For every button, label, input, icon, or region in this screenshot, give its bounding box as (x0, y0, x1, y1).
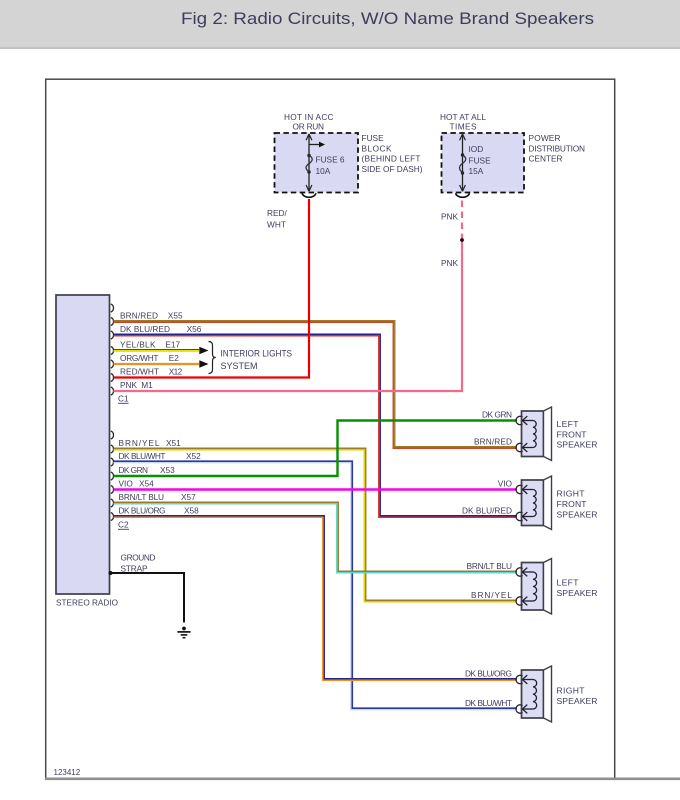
label INTERIOR LIGHTS SYSTEM (221, 349, 293, 371)
label 123412 (54, 768, 81, 777)
wire BRN/RED X55 (radio C1 to left front speaker -) (114, 321, 518, 449)
svg-text:DK BLU/RED: DK BLU/RED (120, 324, 170, 334)
label POWER DISTRIBUTION CENTER (529, 133, 586, 163)
connector arc below fuse block (302, 193, 316, 197)
svg-text:RIGHT: RIGHT (557, 489, 586, 499)
label DK BLU/ORG X58 (119, 506, 200, 516)
svg-text:RED/WHT: RED/WHT (120, 367, 159, 377)
svg-text:YEL/BLK: YEL/BLK (120, 340, 156, 350)
title: Fig 2 Radio Circuits (181, 10, 594, 28)
svg-text:C2: C2 (118, 520, 129, 530)
label FUSE BLOCK (BEHIND LEFT SIDE OF DASH) (362, 133, 423, 174)
wire ground strap (109, 571, 185, 623)
svg-text:BRN/LT BLU: BRN/LT BLU (467, 561, 513, 571)
speaker SP1: LEFT FRONT SPEAKER (516, 407, 552, 461)
svg-text:PNK: PNK (120, 380, 138, 390)
label PNK M1 (120, 380, 153, 390)
svg-text:(BEHIND LEFT: (BEHIND LEFT (362, 154, 421, 164)
label GROUND STRAP (121, 553, 156, 574)
svg-text:X57: X57 (181, 492, 196, 502)
svg-text:DK GRN: DK GRN (119, 465, 149, 475)
svg-text:OR RUN: OR RUN (293, 121, 325, 131)
label FUSE 6 / 10A (316, 155, 345, 176)
label BRN/RED at speaker (474, 437, 512, 447)
label DK GRN at speaker (482, 410, 512, 420)
fuse 6 10A element (306, 134, 312, 191)
svg-text:BRN/RED: BRN/RED (474, 437, 512, 447)
label BRN/RED X55 (120, 311, 183, 321)
wire BRN/LT BLU X57 (radio C2 to left speaker +) (114, 502, 518, 573)
svg-text:SIDE OF DASH): SIDE OF DASH) (362, 164, 423, 174)
radio connector pin arcs C1/C2 (111, 304, 114, 521)
wire PNK dashed segment above splice (461, 200, 463, 240)
label DK BLU/RED at speaker (462, 506, 512, 516)
svg-text:DK BLU/WHT: DK BLU/WHT (465, 698, 512, 708)
label BRN/LT BLU X57 (119, 492, 197, 502)
svg-text:VIO: VIO (119, 479, 134, 489)
svg-text:PNK: PNK (441, 258, 459, 268)
svg-text:INTERIOR LIGHTS: INTERIOR LIGHTS (221, 349, 293, 359)
svg-text:DK BLU/WHT: DK BLU/WHT (119, 451, 166, 461)
wire YEL/BLK E17 (to interior lights system) (114, 347, 209, 355)
svg-text:FUSE: FUSE (362, 133, 385, 143)
label RIGHT SPEAKER (557, 686, 598, 706)
svg-text:C1: C1 (118, 394, 129, 404)
label RED/WHT X12 (120, 367, 183, 377)
svg-text:DK BLU/ORG: DK BLU/ORG (119, 506, 166, 516)
svg-text:TIMES: TIMES (450, 121, 477, 131)
label RIGHT FRONT SPEAKER (557, 489, 598, 520)
svg-text:SPEAKER: SPEAKER (557, 510, 598, 520)
svg-text:BRN/YEL: BRN/YEL (119, 438, 160, 448)
label LEFT SPEAKER (557, 578, 598, 598)
svg-text:BLOCK: BLOCK (362, 144, 392, 154)
label YEL/BLK E17 (120, 340, 181, 350)
speaker SP4: RIGHT SPEAKER (516, 666, 552, 722)
svg-text:DISTRIBUTION: DISTRIBUTION (529, 143, 586, 153)
svg-text:SPEAKER: SPEAKER (557, 588, 598, 598)
branch arrow inside fuse block (309, 142, 325, 148)
svg-text:RIGHT: RIGHT (557, 686, 586, 696)
svg-text:SYSTEM: SYSTEM (221, 361, 258, 371)
IOD fuse 15A element (460, 134, 466, 191)
svg-text:X56: X56 (187, 324, 202, 334)
label DK BLU/WHT X52 (119, 451, 202, 461)
speaker SP2: RIGHT FRONT SPEAKER (516, 476, 552, 530)
label BRN/LT BLU at speaker (467, 561, 513, 571)
svg-text:BRN/RED: BRN/RED (120, 311, 158, 321)
label LEFT FRONT SPEAKER (557, 419, 598, 450)
label RED/WHT wire vertical (267, 208, 288, 230)
label DK GRN X53 (119, 465, 176, 475)
svg-text:HOT AT ALL: HOT AT ALL (440, 112, 486, 122)
svg-text:X55: X55 (168, 311, 183, 321)
svg-text:RED/: RED/ (267, 208, 288, 218)
label PNK lower (441, 258, 459, 268)
svg-text:10A: 10A (316, 166, 331, 176)
wire ORG/WHT E2 (to interior lights system) (114, 360, 209, 368)
svg-text:X54: X54 (139, 479, 154, 489)
svg-text:DK BLU/ORG: DK BLU/ORG (465, 669, 512, 679)
ground symbol G1 (178, 627, 191, 638)
svg-text:CENTER: CENTER (529, 153, 563, 163)
label VIO X54 (119, 479, 155, 489)
wire RED/WHT X12 (radio C1 to fuse 6) (114, 199, 310, 378)
label VIO at speaker (498, 479, 513, 489)
svg-text:FRONT: FRONT (557, 499, 588, 509)
svg-text:X52: X52 (186, 451, 201, 461)
svg-text:X53: X53 (160, 465, 175, 475)
svg-text:HOT IN ACC: HOT IN ACC (284, 112, 334, 122)
label DK BLU/RED X56 (120, 324, 202, 334)
svg-text:123412: 123412 (54, 768, 81, 777)
label DK BLU/ORG at speaker (465, 669, 512, 679)
wire DK GRN X53 (radio C2 to left front speaker +) (114, 421, 518, 477)
svg-text:STRAP: STRAP (121, 564, 148, 574)
svg-text:M1: M1 (141, 380, 153, 390)
svg-text:FUSE: FUSE (469, 155, 492, 165)
label BRN/YEL X51 (119, 438, 182, 448)
connector label C2 (118, 520, 129, 530)
svg-text:DK BLU/RED: DK BLU/RED (462, 506, 512, 516)
wire VIO X54 (radio C2 to right front speaker +) (114, 488, 518, 490)
label HOT AT ALL TIMES (440, 112, 486, 132)
connector label C1 (118, 394, 129, 404)
brace interior lights system (209, 342, 216, 374)
label DK BLU/WHT at speaker (465, 698, 512, 708)
header bar (0, 0, 680, 49)
svg-text:X51: X51 (166, 438, 181, 448)
wire DK BLU/RED X56 (radio C1 to right front speaker -) (114, 334, 518, 517)
label BRN/YEL at speaker (471, 590, 512, 600)
svg-text:FRONT: FRONT (557, 429, 588, 439)
label ORG/WHT E2 (120, 353, 179, 363)
svg-text:PNK: PNK (441, 212, 459, 222)
svg-text:X58: X58 (184, 506, 199, 516)
svg-text:LEFT: LEFT (557, 578, 580, 588)
wire DK BLU/ORG X58 (radio C2 to right speaker +) (114, 516, 518, 681)
svg-text:FUSE 6: FUSE 6 (316, 155, 345, 165)
svg-text:E2: E2 (169, 353, 180, 363)
stereo radio U1 box (56, 295, 119, 608)
label PNK upper (441, 212, 459, 222)
svg-text:LEFT: LEFT (557, 419, 580, 429)
svg-text:SPEAKER: SPEAKER (557, 440, 598, 450)
svg-text:VIO: VIO (498, 479, 513, 489)
svg-text:BRN/LT BLU: BRN/LT BLU (119, 492, 165, 502)
svg-text:E17: E17 (165, 340, 180, 350)
wire BRN/YEL X51 (radio C2 to left speaker -) (114, 448, 518, 602)
fuse block box (behind left side of dash) (275, 133, 359, 193)
svg-text:X12: X12 (169, 367, 183, 377)
svg-text:15A: 15A (469, 166, 484, 176)
svg-text:WHT: WHT (267, 220, 286, 230)
svg-text:SPEAKER: SPEAKER (557, 696, 598, 706)
power distribution center box (442, 133, 525, 193)
svg-text:DK GRN: DK GRN (482, 410, 512, 420)
svg-text:STEREO RADIO: STEREO RADIO (56, 598, 119, 608)
speaker SP3: LEFT SPEAKER (516, 559, 552, 615)
svg-text:Fig 2: Radio Circuits, W/O Nam: Fig 2: Radio Circuits, W/O Name Brand Sp… (181, 10, 594, 28)
svg-text:POWER: POWER (529, 133, 561, 143)
svg-text:BRN/YEL: BRN/YEL (471, 590, 512, 600)
label IOD FUSE 15A (469, 144, 492, 176)
connector arc below PDC box (456, 193, 470, 197)
svg-text:IOD: IOD (469, 144, 484, 154)
svg-text:GROUND: GROUND (121, 553, 156, 563)
wire DK BLU/WHT X52 (radio C2 to right speaker -) (114, 461, 518, 710)
splice junction dot on PNK (460, 238, 464, 242)
svg-text:ORG/WHT: ORG/WHT (120, 353, 159, 363)
wire PNK M1 (radio C1 to IOD fuse splice) (114, 240, 463, 391)
label HOT IN ACC OR RUN (284, 112, 334, 132)
